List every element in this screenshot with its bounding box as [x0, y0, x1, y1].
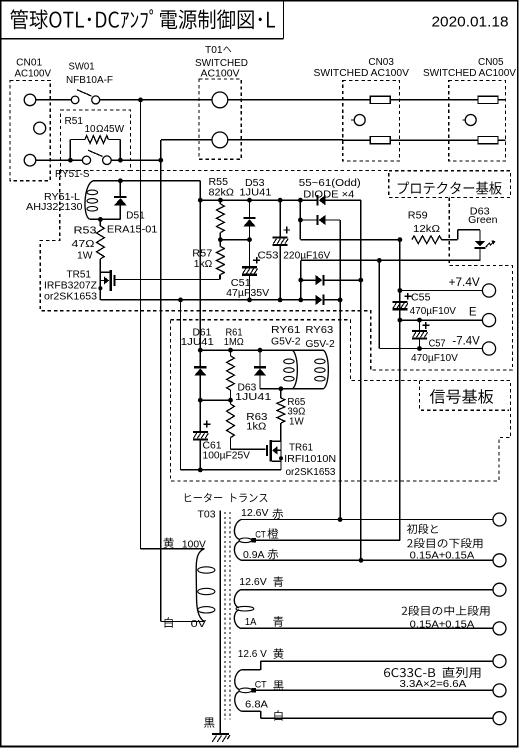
diode D61	[199, 350, 201, 366]
svg-text:-7.4V: -7.4V	[452, 336, 480, 348]
wire	[260, 388, 323, 390]
node	[198, 468, 203, 473]
capacitor C51	[253, 259, 260, 261]
svg-text:SWITCHED: SWITCHED	[195, 58, 248, 69]
wire sec3 bot	[241, 710, 260, 712]
label signal board	[430, 389, 445, 404]
wire sec3 top	[241, 669, 260, 671]
transformer T03 sec2	[234, 590, 240, 608]
node	[228, 398, 233, 403]
wire	[360, 200, 362, 560]
svg-text:220µF16V: 220µF16V	[283, 250, 330, 261]
svg-text:82kΩ: 82kΩ	[209, 188, 235, 199]
wire -7.4V	[378, 260, 380, 348]
wire sec3 CT	[256, 689, 493, 691]
wire relay rail	[200, 349, 292, 351]
svg-text:CN05: CN05	[478, 57, 504, 68]
connector T01 box	[199, 79, 241, 159]
svg-text:0.9A: 0.9A	[243, 550, 265, 561]
svg-text:47Ω: 47Ω	[72, 239, 96, 250]
label protector board	[398, 181, 409, 193]
svg-text:RY63: RY63	[305, 325, 333, 336]
svg-text:RY61: RY61	[271, 325, 301, 336]
svg-text:1W: 1W	[289, 417, 304, 428]
svg-text:C57: C57	[429, 338, 446, 349]
wire	[220, 239, 249, 241]
svg-text:10: 10	[85, 124, 96, 135]
svg-text:470µF10V: 470µF10V	[411, 353, 458, 364]
node	[278, 298, 283, 303]
node	[417, 346, 422, 351]
wire	[292, 349, 323, 351]
svg-text:12.6 V: 12.6 V	[238, 649, 267, 660]
connector CN05	[449, 81, 506, 161]
wire	[199, 181, 201, 200]
capacitor C55	[405, 295, 412, 297]
terminal -7.4V	[482, 342, 495, 355]
node	[279, 386, 284, 391]
resistor R55	[217, 204, 225, 233]
node	[359, 558, 364, 563]
resistor R63	[230, 400, 232, 404]
relay coil RY51-L	[85, 181, 93, 220]
capacitor C57	[419, 320, 421, 330]
fuse F4	[478, 137, 498, 144]
wire	[111, 159, 161, 161]
node	[247, 237, 252, 242]
node	[198, 348, 203, 353]
wire	[300, 239, 400, 241]
svg-text:1kΩ: 1kΩ	[246, 422, 267, 433]
wire	[399, 240, 401, 541]
resistor R51 box	[60, 110, 130, 171]
svg-text:0.15A+0.15A: 0.15A+0.15A	[410, 551, 475, 562]
svg-text:T01: T01	[205, 45, 223, 56]
node CT1	[252, 538, 256, 542]
transformer T03 sec1	[234, 520, 241, 540]
wire +7.4V	[400, 290, 483, 292]
wire	[339, 220, 341, 520]
node	[198, 398, 203, 403]
terminal	[493, 684, 506, 697]
svg-text:1JU41: 1JU41	[181, 337, 215, 348]
wire	[140, 100, 142, 549]
svg-text:NFB10A-F: NFB10A-F	[66, 75, 113, 86]
terminal	[493, 655, 506, 668]
connector CN01	[10, 81, 50, 181]
node	[338, 298, 343, 303]
node	[398, 237, 403, 242]
node	[218, 198, 223, 203]
node	[298, 298, 303, 303]
CN01 pin 2	[24, 154, 36, 166]
capacitor C61	[199, 400, 201, 431]
node	[218, 237, 223, 242]
svg-text:1A: 1A	[245, 617, 257, 628]
svg-text:DIODE ×4: DIODE ×4	[303, 188, 354, 200]
CN01 pin G	[34, 122, 46, 134]
resistor R53	[99, 219, 101, 226]
node	[198, 198, 203, 203]
label black shield	[204, 718, 214, 728]
transformer T03 primary	[196, 549, 204, 622]
node	[278, 198, 283, 203]
svg-text:55~61(Odd): 55~61(Odd)	[299, 177, 361, 189]
wire	[299, 200, 301, 240]
node	[247, 198, 252, 203]
svg-text:CN03: CN03	[368, 57, 394, 68]
connector CN03	[343, 81, 400, 161]
resistor R51	[70, 139, 85, 141]
svg-text:2020.01.18: 2020.01.18	[432, 13, 509, 30]
node	[178, 298, 183, 303]
node	[247, 298, 252, 303]
node	[258, 348, 263, 353]
svg-text:IRFI1010N: IRFI1010N	[284, 454, 336, 465]
svg-text:CN01: CN01	[16, 58, 42, 69]
wire	[90, 218, 121, 220]
transformer T03 shield	[219, 511, 221, 733]
svg-text:3.3A×2=6.6A: 3.3A×2=6.6A	[400, 679, 467, 690]
node	[228, 348, 233, 353]
relay coil RY63	[323, 350, 328, 389]
node	[158, 158, 163, 163]
svg-text:12.6V: 12.6V	[241, 508, 269, 519]
svg-text:R59: R59	[408, 211, 428, 222]
svg-text:or2SK1653: or2SK1653	[286, 467, 336, 478]
svg-text:D51: D51	[126, 211, 145, 222]
node	[298, 218, 303, 223]
wire	[100, 299, 316, 301]
svg-text:Green: Green	[468, 215, 497, 226]
svg-text:12.6V: 12.6V	[239, 577, 267, 588]
node	[358, 278, 363, 283]
label heater2 use	[402, 607, 407, 615]
svg-text:CT: CT	[255, 530, 266, 541]
resistor R59	[412, 236, 442, 244]
node	[298, 278, 303, 283]
diode D59	[301, 279, 317, 281]
node	[98, 217, 103, 222]
transistor TR51	[99, 259, 101, 300]
svg-text:SWITCHED AC100V: SWITCHED AC100V	[314, 68, 410, 79]
wire	[161, 621, 205, 623]
svg-text:G5V-2: G5V-2	[305, 339, 335, 350]
wire	[161, 139, 212, 141]
wire sec1 CT	[256, 539, 400, 541]
transistor TR61	[280, 441, 282, 470]
svg-text:AC100V: AC100V	[15, 68, 52, 79]
wire sec2 bot	[241, 627, 493, 629]
wire	[141, 548, 205, 550]
svg-text:Ω45W: Ω45W	[96, 124, 125, 135]
wire	[231, 448, 266, 450]
wire relay gnd rail	[181, 469, 282, 471]
svg-text:AHJ322130: AHJ322130	[26, 202, 83, 213]
wire	[36, 159, 83, 161]
svg-text:SW01: SW01	[69, 62, 95, 73]
diode D55	[316, 195, 318, 205]
ground	[212, 733, 229, 735]
relay coil RY61	[292, 350, 297, 389]
terminal	[493, 583, 506, 596]
CN01 pin 1	[24, 94, 36, 106]
label white 0V	[165, 617, 173, 628]
svg-text:R53: R53	[74, 226, 98, 237]
label heater trans	[185, 493, 191, 501]
node	[398, 318, 403, 323]
svg-text:E: E	[469, 306, 477, 318]
wire	[160, 140, 162, 622]
svg-text:470µF10V: 470µF10V	[410, 306, 457, 317]
diode D63	[259, 350, 261, 366]
node	[138, 98, 143, 103]
LED D63	[475, 241, 485, 246]
node	[118, 158, 123, 163]
relay contact RY51-S	[82, 156, 90, 164]
node	[298, 198, 303, 203]
wire	[228, 139, 343, 141]
switch SW01	[71, 96, 79, 104]
svg-text:T03: T03	[198, 510, 216, 521]
resistor R57	[219, 240, 221, 247]
resistor R65	[280, 389, 282, 398]
wire	[457, 230, 459, 240]
fuse F3	[478, 96, 498, 103]
svg-text:C53: C53	[258, 250, 279, 261]
lamp CN03	[351, 119, 354, 121]
wire E	[400, 319, 483, 321]
svg-text:+7.4V: +7.4V	[449, 277, 481, 289]
wire	[93, 180, 200, 182]
node CT3	[252, 688, 256, 692]
wire	[100, 99, 212, 101]
svg-text:47µF35V: 47µF35V	[226, 288, 269, 299]
wire sec2 top	[241, 589, 493, 591]
svg-text:12kΩ: 12kΩ	[413, 224, 441, 235]
fuse F2	[343, 139, 370, 141]
terminal	[493, 712, 506, 725]
svg-text:6.8A: 6.8A	[245, 700, 268, 711]
svg-text:AC100V: AC100V	[201, 68, 240, 79]
fuse F1	[343, 99, 370, 101]
terminal	[493, 513, 506, 526]
diode D61b	[315, 299, 318, 301]
terminal	[493, 622, 506, 635]
T01 pin 2	[212, 132, 228, 148]
svg-text:C55: C55	[411, 293, 431, 304]
capacitor C53	[279, 200, 281, 236]
node	[377, 258, 382, 263]
label yellow 100V	[164, 538, 174, 549]
lamp CN05	[462, 119, 465, 121]
wire	[228, 99, 343, 101]
transformer T03 core	[224, 512, 226, 719]
node	[398, 288, 403, 293]
label heater3 use	[384, 668, 390, 677]
svg-text:R51: R51	[65, 116, 84, 127]
node	[118, 178, 123, 183]
svg-text:ERA15-01: ERA15-01	[107, 224, 158, 235]
svg-text:TR51: TR51	[67, 269, 92, 280]
svg-text:G5V-2: G5V-2	[271, 337, 301, 348]
label white2	[274, 710, 282, 721]
terminal +7.4V	[482, 284, 495, 297]
wire bus	[200, 199, 316, 201]
wire	[301, 259, 481, 261]
board protector outline	[130, 169, 389, 171]
title text	[10, 9, 28, 29]
diode D51	[119, 181, 121, 196]
T01 pin 1	[212, 92, 228, 108]
node	[338, 517, 343, 522]
board relay outline	[171, 320, 511, 481]
svg-text:1JU41: 1JU41	[239, 188, 271, 199]
wire TR51 gate	[116, 279, 220, 281]
wire	[199, 200, 201, 350]
svg-text:100µF25V: 100µF25V	[203, 451, 251, 462]
svg-text:1kΩ: 1kΩ	[194, 259, 213, 270]
wire	[36, 99, 72, 101]
svg-text:1W: 1W	[77, 251, 93, 262]
svg-text:CT: CT	[255, 680, 267, 691]
terminal	[493, 554, 506, 567]
diode D57	[300, 219, 316, 221]
svg-text:1MΩ: 1MΩ	[224, 337, 244, 348]
label heater1 use	[407, 524, 417, 534]
diode D53	[249, 200, 251, 217]
terminal E	[482, 314, 495, 327]
svg-text:TR61: TR61	[289, 443, 313, 454]
svg-text:IRFB3207Z: IRFB3207Z	[44, 280, 97, 291]
wire	[200, 399, 230, 401]
svg-text:0.15A+0.15A: 0.15A+0.15A	[410, 619, 475, 630]
svg-text:or2SK1653: or2SK1653	[44, 291, 97, 302]
node	[68, 158, 73, 163]
svg-text:SWITCHED AC100V: SWITCHED AC100V	[423, 68, 516, 79]
resistor R61	[230, 350, 232, 356]
wire sec1 bot	[241, 559, 493, 561]
wire sec1 top	[241, 519, 493, 521]
svg-text:1JU41: 1JU41	[235, 392, 272, 403]
node	[417, 318, 422, 323]
transformer T03 sec3	[235, 670, 242, 690]
